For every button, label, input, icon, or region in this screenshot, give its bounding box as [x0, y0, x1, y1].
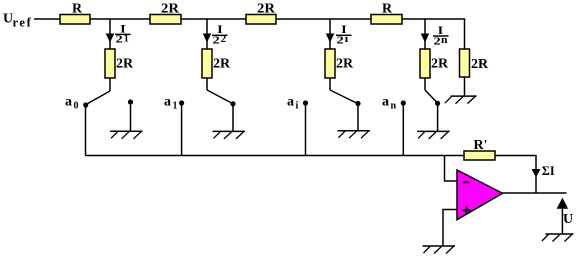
- branch 4 current arrow: [421, 34, 430, 43]
- wire below 2R branch4: [424, 78, 426, 90]
- ground G5: [445, 96, 477, 104]
- wire right contact to ground 4: [437, 103, 439, 131]
- svg-text:2R: 2R: [431, 57, 449, 72]
- wire below 2R branch1: [109, 78, 111, 91]
- resistor 2R vertical branch1: [105, 49, 134, 78]
- wire R to node1: [90, 18, 150, 20]
- label I/2^i: [336, 24, 352, 46]
- wire op-amp output: [503, 192, 567, 194]
- resistor 2R vertical branch2: [202, 49, 231, 78]
- node dot branch4 right contact: [435, 101, 440, 106]
- branch 1: wire node1 down: [109, 19, 111, 49]
- resistor R' feedback: [464, 138, 495, 160]
- svg-text:a: a: [164, 95, 171, 110]
- node dot ai left contact: [303, 100, 308, 105]
- branch 3: wire node3 down: [329, 19, 331, 49]
- ground G3: [338, 130, 371, 138]
- svg-text:R': R': [474, 138, 488, 153]
- ground G4: [417, 131, 450, 139]
- resistor R (fourth series): [371, 2, 402, 25]
- label a0: [65, 95, 79, 112]
- svg-text:ΣI: ΣI: [542, 163, 555, 178]
- ground G2: [213, 131, 246, 139]
- svg-text:n: n: [391, 101, 397, 112]
- op-amp U1: [457, 170, 503, 220]
- label I/2^2: [212, 24, 228, 46]
- ground G7: [542, 234, 574, 242]
- svg-text:2: 2: [116, 34, 124, 46]
- wire Uref to R: [34, 18, 60, 20]
- label ai: [287, 95, 299, 112]
- svg-text:2R: 2R: [257, 2, 276, 17]
- svg-text:U: U: [563, 212, 573, 227]
- wire below 2R branch3: [329, 78, 331, 90]
- wire a0 contact to bus: [85, 105, 87, 156]
- switch lever a0 (closed to bus): [86, 91, 110, 105]
- label I/2^1: [115, 23, 131, 45]
- wire a1 contact to bus: [181, 103, 183, 156]
- svg-text:a: a: [65, 95, 72, 110]
- ground G1: [110, 131, 143, 139]
- branch 1 current arrow: [106, 34, 115, 43]
- branch 4: wire node4 down: [424, 19, 426, 49]
- label I/2^n: [433, 25, 449, 47]
- svg-text:2R: 2R: [116, 57, 134, 72]
- svg-text:2R: 2R: [161, 2, 180, 17]
- resistor 2R (third series): [246, 2, 276, 25]
- resistor 2R (second series): [150, 2, 181, 25]
- wire 2R to node3: [276, 18, 371, 20]
- node dot a0 left contact: [83, 102, 88, 107]
- node dot a1 left contact: [179, 100, 184, 105]
- svg-text:a: a: [287, 95, 294, 110]
- ground G6: [423, 246, 456, 254]
- wire R to top-right corner: [402, 19, 465, 49]
- node Uref label: [3, 12, 32, 30]
- svg-text:R: R: [72, 2, 83, 17]
- node dot branch2 right contact: [230, 101, 235, 106]
- wire U arrow to ground 7: [561, 208, 563, 234]
- arrow sum current: [532, 169, 541, 178]
- wire summing bus: [86, 155, 465, 157]
- wire right contact to ground 1: [130, 102, 132, 131]
- wire ai contact to bus: [305, 103, 307, 156]
- svg-text:i: i: [296, 101, 299, 112]
- wire right contact to ground 3: [357, 104, 359, 131]
- branch 3 current arrow: [326, 34, 335, 43]
- wire an contact to bus: [402, 103, 404, 156]
- wire bus tap to inverting input: [445, 156, 458, 182]
- switch lever an (closed to ground): [425, 90, 437, 103]
- svg-text:1: 1: [124, 33, 129, 44]
- svg-text:0: 0: [74, 101, 79, 112]
- svg-text:2: 2: [221, 34, 227, 45]
- wire R' to feedback corner: [495, 156, 536, 194]
- resistor 2R vertical branch4: [420, 49, 449, 78]
- wire below 2R branch2: [206, 78, 208, 90]
- svg-text:i: i: [345, 34, 349, 45]
- svg-text:2R: 2R: [336, 57, 354, 72]
- node dot branch1 right contact: [128, 99, 133, 104]
- svg-text:1: 1: [173, 101, 178, 112]
- branch 2: wire node2 down: [206, 19, 208, 49]
- svg-text:R: R: [382, 2, 393, 17]
- arrow output voltage U: [557, 198, 569, 209]
- node dot an left contact: [401, 100, 406, 105]
- svg-text:n: n: [441, 35, 448, 46]
- wire terminator to ground 5: [464, 77, 466, 96]
- switch lever ai (closed to ground): [330, 90, 358, 104]
- label a1: [164, 95, 178, 112]
- branch 2 current arrow: [203, 34, 212, 43]
- wire right contact to ground 2: [232, 104, 234, 132]
- resistor R (first series): [60, 2, 90, 25]
- resistor 2R vertical branch3: [325, 49, 354, 78]
- wire 2R to node2: [181, 18, 246, 20]
- resistor 2R terminator: [460, 49, 490, 77]
- node dot branch3 right contact: [355, 101, 360, 106]
- label an: [382, 95, 397, 112]
- svg-text:2R: 2R: [213, 57, 231, 72]
- svg-text:2R: 2R: [471, 57, 489, 72]
- wire non-inverting input: [443, 210, 457, 247]
- svg-text:2: 2: [213, 34, 221, 46]
- switch lever a1 (closed to ground): [207, 90, 233, 104]
- svg-text:a: a: [382, 95, 389, 110]
- svg-text:2: 2: [337, 34, 345, 46]
- svg-text:ref: ref: [13, 16, 33, 30]
